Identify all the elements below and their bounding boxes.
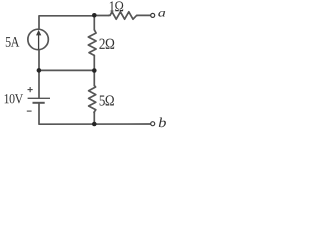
resistor R2 2-ohm zigzag — [88, 30, 96, 56]
label 1-ohm resistor value — [110, 1, 123, 11]
terminal a open circle — [151, 13, 155, 17]
wire top left segment — [39, 16, 94, 29]
resistor R3 5-ohm zigzag — [89, 86, 96, 113]
label 5A current source value — [6, 37, 19, 47]
wire middle horizontal — [39, 69, 94, 71]
battery plus sign — [28, 87, 33, 92]
wire left vertical source-to-node — [38, 50, 40, 98]
battery V1 short plate — [33, 102, 45, 104]
junction node dot middle left — [37, 68, 42, 73]
junction node dot middle right — [92, 68, 97, 73]
label 10V battery value — [5, 94, 24, 103]
label terminal b — [159, 118, 166, 128]
junction node dot top — [92, 13, 97, 18]
wire 1-ohm to terminal a — [138, 14, 151, 16]
junction node dot bottom — [92, 122, 97, 127]
battery V1 long plate — [28, 97, 50, 99]
wire 2-ohm top lead — [93, 16, 95, 30]
wire top right segment — [94, 15, 109, 17]
wire 5-ohm top lead — [93, 70, 95, 85]
battery minus sign — [27, 110, 32, 112]
wire battery to bottom and bottom horizontal — [39, 103, 151, 124]
wire 2-ohm bottom lead — [93, 55, 95, 70]
resistor R1 1-ohm zigzag — [109, 12, 138, 19]
label 2-ohm resistor value — [99, 39, 114, 49]
label terminal a — [158, 11, 165, 17]
wire 5-ohm bottom lead — [93, 112, 95, 124]
current source I1 circle — [28, 29, 49, 50]
terminal b open circle — [151, 122, 155, 126]
current source I1 arrow — [36, 30, 41, 50]
label 5-ohm resistor value — [100, 95, 114, 105]
